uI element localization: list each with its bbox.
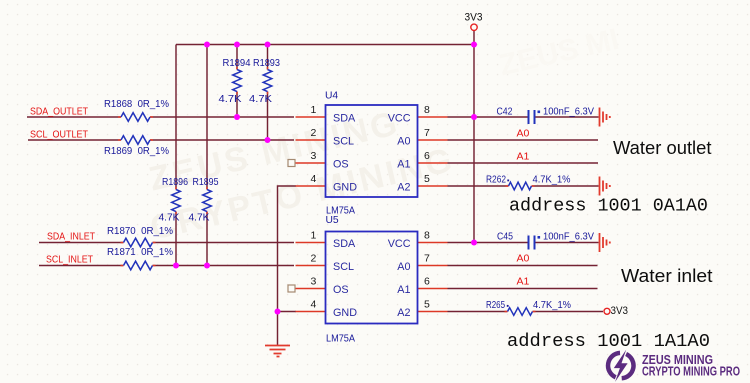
svg-text:4.7K_1%: 4.7K_1% bbox=[533, 300, 571, 311]
svg-text:R262: R262 bbox=[486, 175, 506, 186]
svg-text:SDA_INLET: SDA_INLET bbox=[47, 231, 95, 243]
svg-text:8: 8 bbox=[424, 104, 430, 116]
svg-text:VCC: VCC bbox=[388, 113, 411, 125]
svg-text:CRYPTO MINING PRO: CRYPTO MINING PRO bbox=[642, 365, 740, 379]
svg-text:A0: A0 bbox=[517, 128, 530, 140]
svg-text:Water outlet: Water outlet bbox=[613, 137, 712, 158]
svg-text:5: 5 bbox=[424, 299, 430, 311]
svg-text:3: 3 bbox=[310, 150, 316, 162]
svg-text:4.7K: 4.7K bbox=[219, 94, 242, 105]
svg-text:A2: A2 bbox=[397, 182, 410, 194]
svg-text:SDA: SDA bbox=[333, 238, 356, 250]
svg-text:SDA_OUTLET: SDA_OUTLET bbox=[30, 105, 88, 117]
svg-text:R265: R265 bbox=[486, 300, 505, 311]
svg-text:4.7K: 4.7K bbox=[249, 94, 272, 105]
svg-text:3V3: 3V3 bbox=[465, 12, 483, 24]
svg-text:U4: U4 bbox=[325, 91, 338, 102]
svg-text:A1: A1 bbox=[517, 151, 530, 163]
svg-text:SCL: SCL bbox=[333, 136, 354, 148]
svg-text:R1896: R1896 bbox=[162, 177, 188, 188]
svg-text:VCC: VCC bbox=[388, 238, 411, 250]
svg-text:U5: U5 bbox=[326, 215, 339, 226]
svg-text:1: 1 bbox=[310, 230, 316, 242]
svg-text:A1: A1 bbox=[517, 276, 530, 288]
svg-text:SDA: SDA bbox=[333, 113, 356, 125]
svg-text:6: 6 bbox=[424, 150, 430, 162]
svg-text:SCL: SCL bbox=[333, 261, 354, 273]
svg-text:A1: A1 bbox=[397, 284, 410, 296]
svg-text:R1868 0R_1%: R1868 0R_1% bbox=[104, 99, 169, 110]
svg-text:4.7K: 4.7K bbox=[159, 213, 180, 224]
svg-text:2: 2 bbox=[310, 253, 316, 265]
svg-text:R1894: R1894 bbox=[223, 58, 251, 69]
svg-text:R1895: R1895 bbox=[193, 177, 219, 188]
svg-text:1: 1 bbox=[310, 104, 316, 116]
svg-text:GND: GND bbox=[333, 182, 357, 194]
svg-text:A0: A0 bbox=[397, 136, 410, 148]
svg-text:SCL_OUTLET: SCL_OUTLET bbox=[30, 129, 89, 141]
svg-text:address 1001 1A1A0: address 1001 1A1A0 bbox=[507, 331, 710, 352]
svg-text:3: 3 bbox=[310, 276, 316, 288]
svg-text:Water inlet: Water inlet bbox=[621, 265, 713, 286]
svg-text:2: 2 bbox=[310, 127, 316, 139]
svg-text:4: 4 bbox=[310, 299, 316, 311]
svg-text:5: 5 bbox=[424, 173, 430, 185]
svg-text:C42: C42 bbox=[497, 107, 513, 118]
svg-text:R1869 0R_1%: R1869 0R_1% bbox=[104, 146, 169, 157]
svg-text:C45: C45 bbox=[497, 232, 513, 243]
svg-text:R1870 0R_1%: R1870 0R_1% bbox=[107, 226, 173, 237]
svg-text:100nF_6.3V: 100nF_6.3V bbox=[543, 232, 594, 243]
svg-text:address 1001 0A1A0: address 1001 0A1A0 bbox=[509, 196, 708, 217]
svg-text:SCL_INLET: SCL_INLET bbox=[46, 254, 93, 266]
svg-text:A0: A0 bbox=[397, 261, 410, 273]
svg-text:4: 4 bbox=[310, 173, 316, 185]
svg-text:A1: A1 bbox=[397, 159, 410, 171]
svg-text:8: 8 bbox=[424, 230, 430, 242]
svg-text:GND: GND bbox=[333, 307, 357, 319]
svg-text:3V3: 3V3 bbox=[611, 305, 629, 317]
svg-text:7: 7 bbox=[424, 253, 430, 265]
svg-text:4.7K_1%: 4.7K_1% bbox=[533, 175, 571, 186]
svg-text:A2: A2 bbox=[397, 307, 410, 319]
svg-text:R1893: R1893 bbox=[253, 58, 280, 69]
svg-text:6: 6 bbox=[424, 276, 430, 288]
svg-text:R1871 0R_1%: R1871 0R_1% bbox=[107, 247, 173, 258]
svg-text:4.7K: 4.7K bbox=[189, 213, 210, 224]
svg-text:7: 7 bbox=[424, 127, 430, 139]
svg-text:OS: OS bbox=[333, 284, 349, 296]
svg-text:100nF_6.3V: 100nF_6.3V bbox=[543, 107, 594, 118]
svg-text:LM75A: LM75A bbox=[326, 334, 355, 345]
svg-text:OS: OS bbox=[333, 159, 349, 171]
svg-text:A0: A0 bbox=[517, 253, 530, 265]
